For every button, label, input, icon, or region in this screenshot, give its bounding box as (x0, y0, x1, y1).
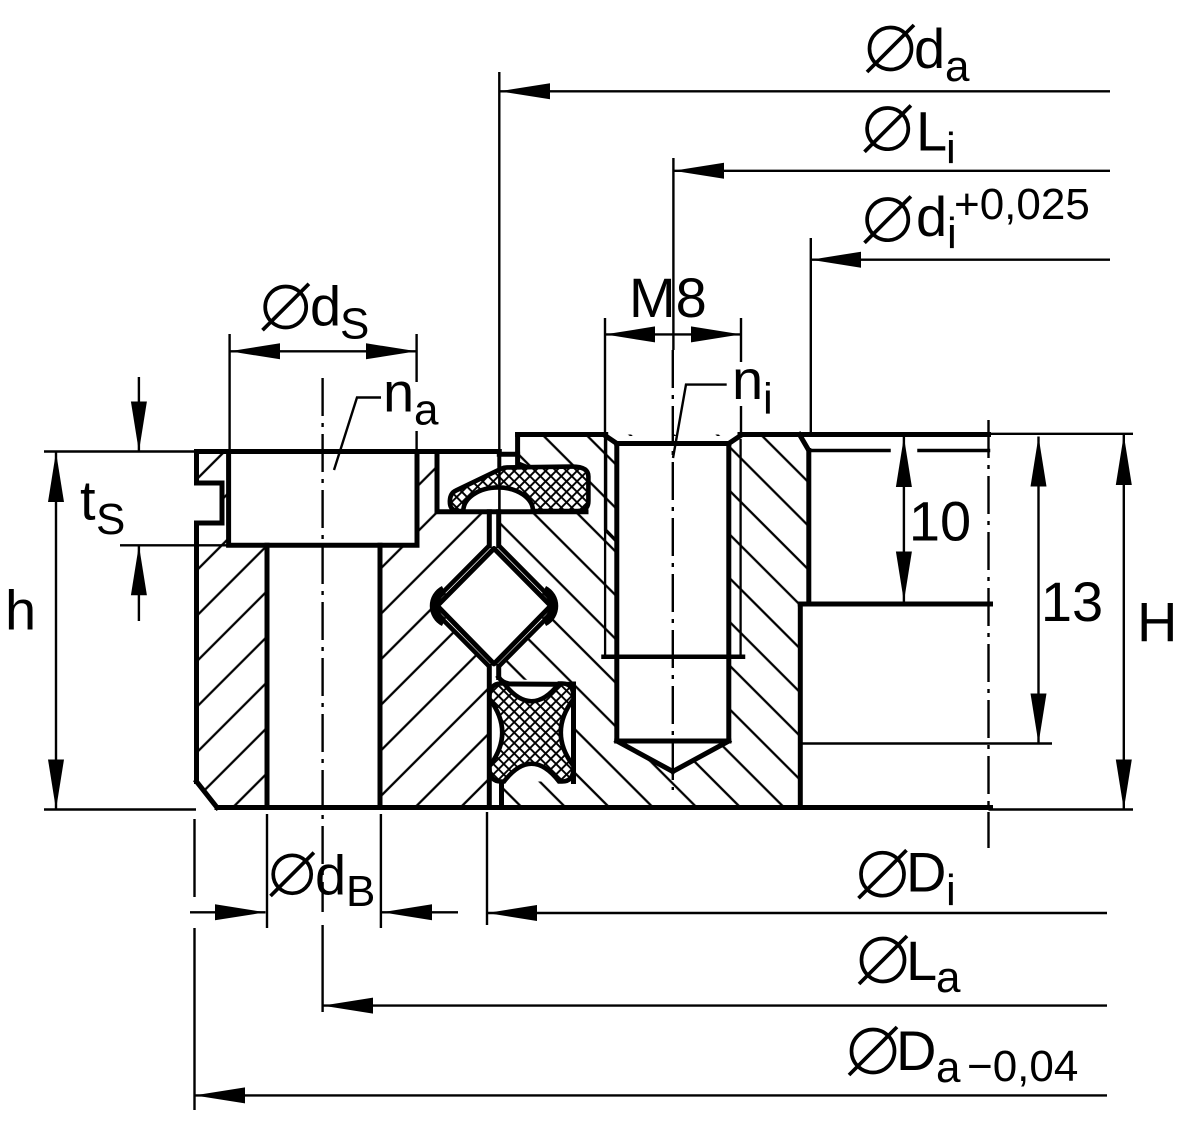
H bottom reference right (989, 808, 1134, 810)
dimension lines (56, 91, 1124, 1095)
section break centerline right (987, 420, 989, 848)
di extension line (810, 238, 812, 434)
gap walls between rings lower (489, 667, 498, 808)
13 reference line (800, 742, 1052, 744)
bore wall di (806, 451, 811, 605)
Da arrow (195, 1087, 246, 1103)
La dimension line (323, 1004, 1107, 1006)
svg-text:t: t (80, 469, 96, 532)
svg-text:a: a (936, 1043, 961, 1092)
drill bottom and point (617, 741, 729, 772)
corner relief crescents (434, 590, 444, 622)
dB dimension line with tails (190, 911, 458, 913)
inner ring outline (499, 435, 991, 808)
label dB (271, 844, 376, 916)
tS dimension line with tails (138, 377, 140, 452)
svg-text:L: L (916, 99, 947, 162)
label na (383, 361, 439, 435)
label Da -0,04 (849, 1019, 1078, 1092)
leader line na (334, 398, 381, 471)
label Di (859, 841, 956, 915)
La arrow (323, 998, 373, 1014)
dB arrows (outside) (215, 904, 266, 920)
h arrows (48, 452, 64, 502)
Di extension line (486, 812, 488, 925)
bottom edge both rings (217, 805, 991, 810)
svg-text:n: n (732, 348, 763, 411)
step down to outer ring top (499, 435, 517, 455)
svg-text:d: d (914, 17, 945, 80)
label ni (732, 348, 773, 423)
bore wall lower (798, 604, 803, 808)
dB extension lines (266, 814, 268, 928)
crossed roller (diamond) with raceway corner reliefs (433, 546, 555, 667)
label La (859, 929, 961, 1002)
H dimension line (1123, 435, 1125, 810)
10 dimension line (903, 437, 905, 602)
svg-text:S: S (340, 299, 369, 348)
M8 extension lines (604, 318, 606, 434)
Li dimension line (673, 170, 1110, 172)
h/tS top reference left (44, 450, 196, 452)
label da (867, 17, 970, 91)
Da dimension line (195, 1094, 1108, 1096)
tS bottom reference (120, 544, 265, 546)
gap walls between rings upper (489, 512, 498, 546)
di arrow (811, 252, 861, 268)
top surface inner ring (518, 432, 989, 437)
M8 dimension line (605, 333, 741, 335)
top surface outer ring (197, 449, 500, 454)
svg-text:−0,04: −0,04 (967, 1042, 1078, 1091)
raceway surfaces (433, 546, 555, 667)
svg-text:S: S (96, 495, 125, 544)
X-seal groove wall (499, 678, 574, 782)
Li arrow (673, 163, 724, 179)
M8 hole centerline (672, 350, 674, 790)
Da extension line (193, 819, 195, 1110)
svg-text:D: D (906, 841, 946, 904)
H arrows (1116, 435, 1132, 485)
svg-text:D: D (896, 1019, 936, 1082)
Di arrow (487, 905, 537, 921)
inner ring left face (606, 436, 617, 542)
label tS (80, 469, 125, 544)
bore step shoulder (800, 602, 990, 607)
bore dB walls (267, 545, 380, 807)
svg-text:n: n (383, 361, 414, 424)
svg-text:L: L (906, 929, 937, 992)
svg-text:i: i (946, 124, 956, 173)
10 arrows (896, 437, 912, 487)
plug hole centerline (321, 378, 323, 912)
gap mouth at top surface (497, 452, 501, 470)
M8 arrows (605, 326, 655, 342)
inner ring (right, section hatched) (499, 435, 809, 808)
thread major lines (605, 440, 741, 657)
di dimension line (811, 259, 1110, 261)
svg-text:B: B (346, 867, 375, 916)
dS arrows (230, 343, 280, 359)
svg-text:a: a (414, 386, 439, 435)
bore chamfer top right (800, 435, 809, 451)
countersink chamfers (606, 436, 740, 444)
svg-text:10: 10 (909, 490, 971, 553)
13 arrows (1031, 437, 1047, 487)
svg-text:i: i (763, 374, 773, 423)
countersink edge across hole (617, 441, 729, 446)
hole minor walls (617, 444, 729, 742)
svg-text:a: a (945, 42, 970, 91)
left edge with plug notch (197, 452, 223, 782)
bottom chamfer outer ring (197, 782, 218, 808)
svg-text:H: H (1137, 591, 1177, 654)
da dimension line (499, 90, 1110, 92)
La extension line (321, 925, 323, 1012)
h bottom reference left (44, 808, 196, 810)
svg-text:M8: M8 (629, 266, 707, 329)
dS dimension line (230, 350, 417, 352)
outer ring outline (197, 452, 991, 808)
outer ring (left, section hatched) (197, 452, 490, 808)
da arrow (499, 83, 550, 99)
label dS (263, 274, 370, 348)
svg-text:a: a (936, 953, 961, 1002)
svg-text:d: d (916, 185, 947, 248)
da extension continuing through seal (498, 469, 501, 512)
label di +0,025 (865, 180, 1090, 258)
dS extension lines (228, 334, 230, 451)
label Li (865, 99, 956, 173)
thread end line (604, 655, 744, 660)
svg-text:h: h (5, 579, 36, 642)
svg-text:+0,025: +0,025 (954, 180, 1090, 229)
h dimension line (55, 452, 57, 810)
chamfer circle edge in bore (809, 449, 989, 453)
tS arrows (outside) (131, 402, 147, 452)
Di dimension line (487, 912, 1107, 914)
centerlines (323, 350, 989, 912)
13 dimension line (1037, 437, 1039, 744)
H top reference right (989, 433, 1134, 435)
roller body (438, 549, 550, 664)
svg-text:i: i (946, 866, 956, 915)
M8 tapped hole (604, 436, 744, 772)
svg-text:d: d (315, 844, 346, 907)
seal groove outer ring (437, 452, 586, 512)
svg-text:d: d (310, 274, 341, 337)
svg-text:13: 13 (1041, 570, 1103, 633)
plug counterbore (229, 452, 417, 546)
da extension line (498, 72, 500, 452)
leader line ni (673, 385, 727, 458)
Li extension line (672, 158, 674, 350)
